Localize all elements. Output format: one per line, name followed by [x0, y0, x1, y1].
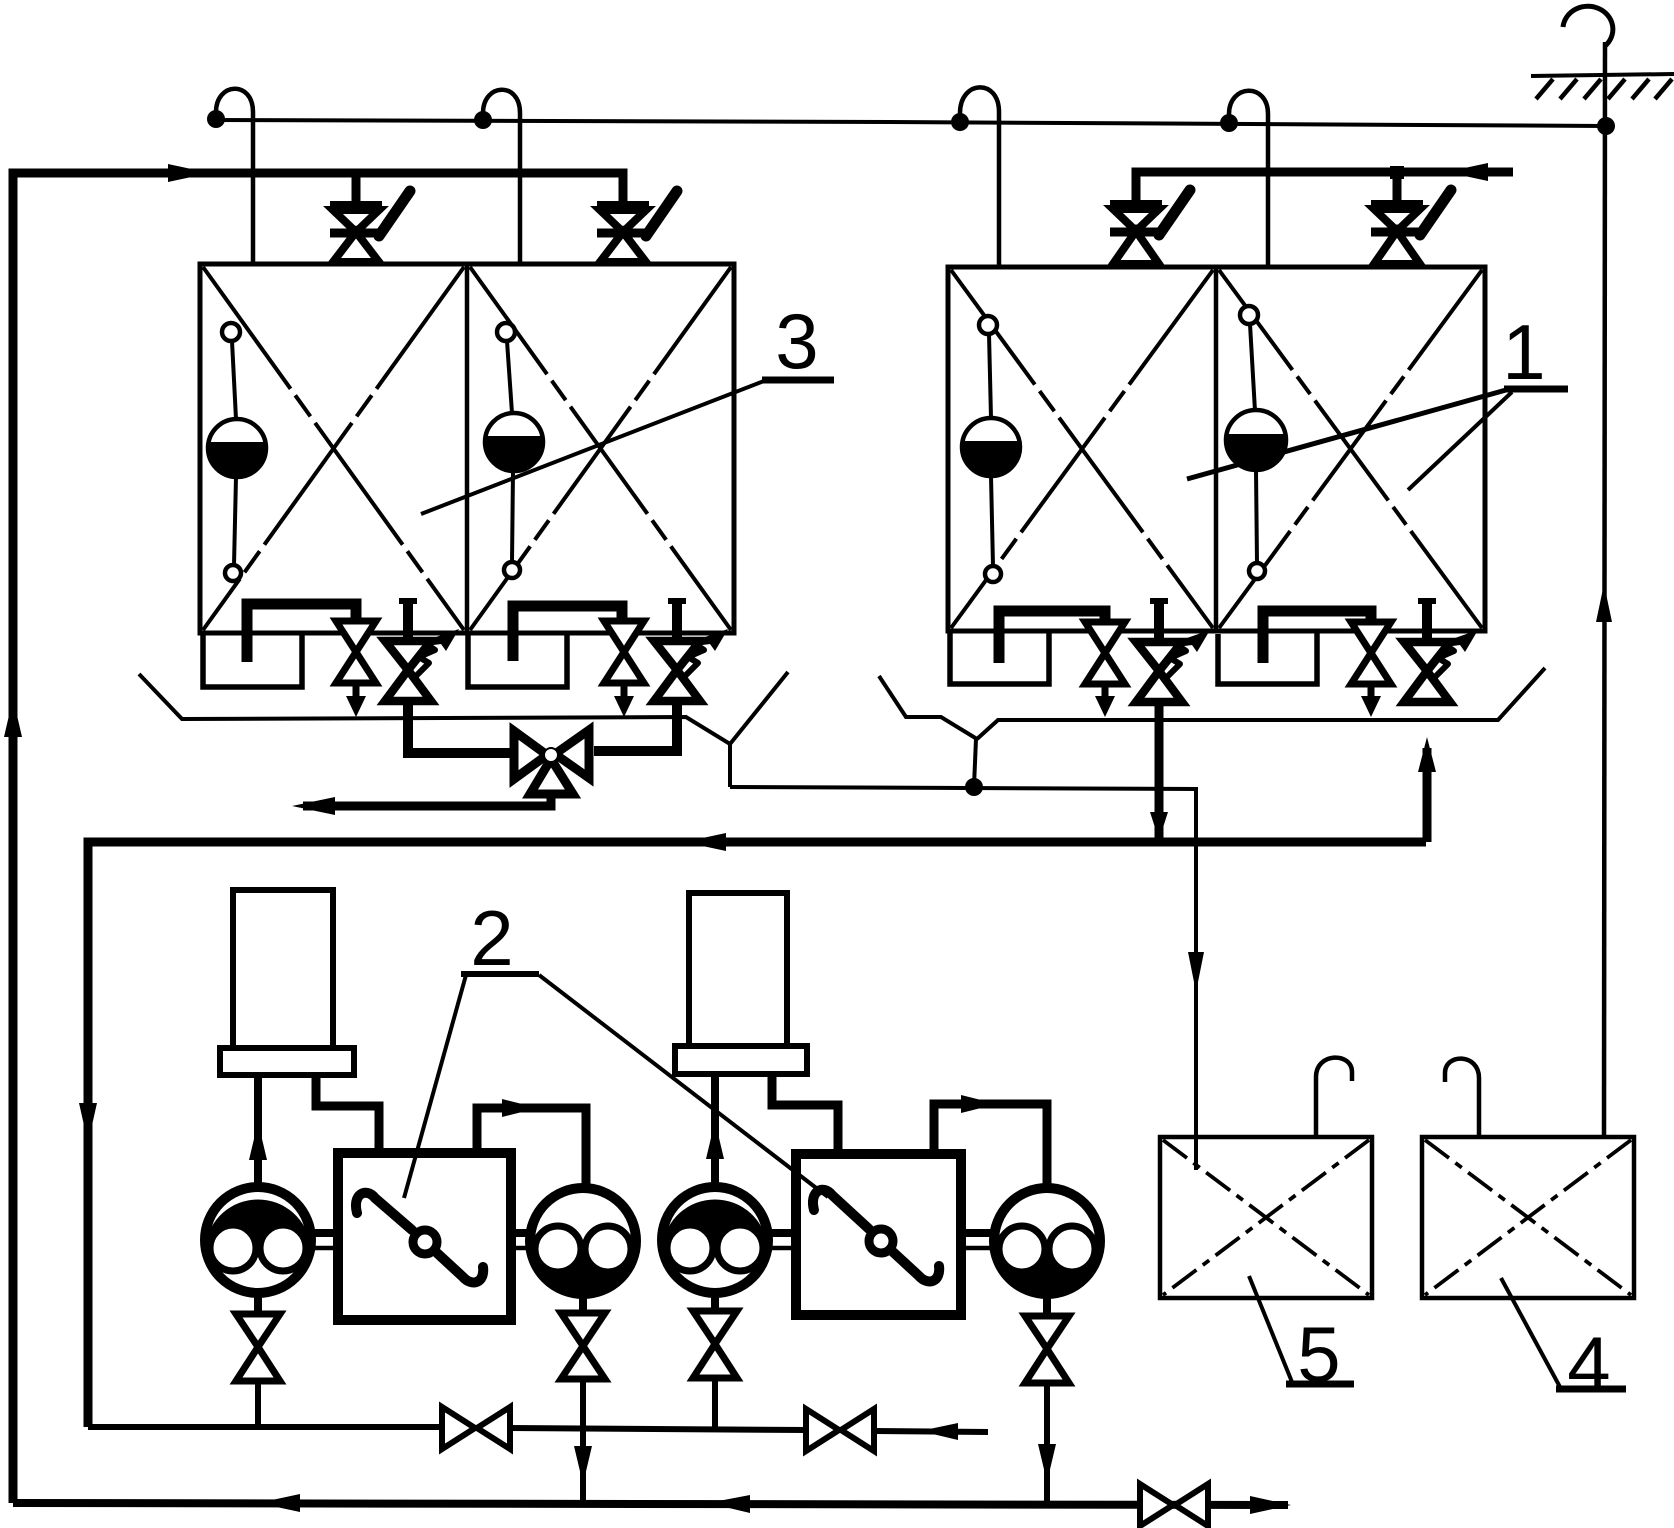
- pump N2 (gear pump): [530, 1188, 636, 1294]
- pump N1 drop pipe to suction manifold: [255, 1381, 261, 1428]
- suction pipe cylinder C2 to pump N3: [711, 1075, 719, 1186]
- step pipe C1 flange to regulator R1: [316, 1076, 379, 1154]
- sump box tank T2 cell1: [950, 631, 1049, 684]
- bottom main valve M3: [1140, 1484, 1208, 1526]
- arrow down on drain header drop to box 5: [1188, 952, 1204, 992]
- filter box 5 cross braces: [1163, 1140, 1369, 1295]
- arrow left on right supply pipe: [1446, 163, 1488, 181]
- cylinder C1 (motor of pump set 1): [233, 890, 333, 1048]
- drain valve D4 (tank T2 cell2 blow-off): [1351, 622, 1391, 717]
- drain valve D3 (tank T2 cell1 blow-off): [1085, 622, 1125, 717]
- junction dot C (vent loop 3): [951, 113, 969, 131]
- tank T2 divider: [1214, 267, 1219, 631]
- vent loop 4 (tank T2 cell 2): [1229, 91, 1268, 267]
- tank T2 cell1 cross braces: [951, 270, 1213, 628]
- arrow right on left supply pipe: [168, 164, 210, 182]
- svg-text:3: 3: [775, 297, 818, 385]
- drip tray under tank T2 left wall: [879, 676, 977, 739]
- filter box 5: [1160, 1137, 1372, 1298]
- pipe from valve B1 down to three-way valve: [408, 701, 514, 753]
- drain valve D1 (tank T1 cell1 blow-off): [336, 621, 376, 717]
- ground hatch ticks: [1536, 79, 1672, 99]
- tank T2 cell2 cross braces: [1219, 270, 1482, 628]
- arrow left on bottom main (center): [708, 1495, 750, 1513]
- label 1 leader line long: [1187, 390, 1506, 479]
- vent header line: [213, 120, 1606, 126]
- filter box 5 vent hook: [1316, 1058, 1352, 1137]
- valve V1 (tank T1 cell1 inlet valve with lever): [330, 191, 410, 262]
- regulator R1 box: [338, 1153, 511, 1320]
- arrow right at bottom main east end: [1250, 1496, 1291, 1514]
- valve V1 stem: [352, 173, 361, 208]
- shaft link regulator R1 to pump N2: [509, 1233, 531, 1248]
- label 4 leader: [1501, 1278, 1560, 1387]
- outlet valve B4 (tank T2 cell2 bottom valve with spring lever): [1404, 600, 1478, 702]
- shaft link regulator R2 to pump N4: [959, 1233, 995, 1248]
- vent loop 1 (tank T1 cell 1): [216, 89, 253, 264]
- supply pipe right (thick top main): [1136, 172, 1513, 207]
- sump box tank T1 cell1: [203, 633, 302, 687]
- filter box 4: [1422, 1137, 1634, 1298]
- suction manifold middle span: [510, 1428, 806, 1430]
- pump N2 outlet stem: [579, 1295, 587, 1313]
- float gauge G1 (tank T1 cell1): [208, 323, 266, 581]
- pump valve K4: [1025, 1316, 1069, 1383]
- shaft link pump N3 to regulator R2: [767, 1233, 798, 1248]
- arrow down on pump N4 drop: [1038, 1444, 1056, 1482]
- svg-text:2: 2: [470, 894, 513, 982]
- junction dot A (vent loop 1): [207, 110, 225, 128]
- suction pipe P4 (tank T2 cell2 internal U pipe): [1263, 611, 1371, 663]
- pipe regulator R2 to pump N4: [934, 1104, 1047, 1190]
- regulator R2 lever: [813, 1190, 939, 1282]
- pump N1 (gear pump): [205, 1187, 311, 1293]
- pump valve K1: [236, 1314, 280, 1381]
- outlet valve B2 (tank T1 cell2 bottom valve with spring lever): [654, 600, 728, 701]
- tank T1 cell1 cross braces: [203, 267, 464, 630]
- drip tray T2 drain leg: [974, 739, 976, 786]
- junction dot E (header to ground riser): [1597, 117, 1615, 135]
- arrow left on bottom main (west): [258, 1494, 300, 1512]
- ground surface line: [1531, 74, 1674, 76]
- arrow left on suction manifold stub: [920, 1423, 958, 1440]
- manifold valve M2: [806, 1409, 874, 1451]
- drip tray under tank T2: [977, 668, 1545, 739]
- arrow up on B4 riser: [1418, 737, 1436, 772]
- valve V2 (tank T1 cell2 inlet valve with lever): [597, 191, 677, 262]
- arrow up on ground riser: [1596, 584, 1612, 622]
- label 3 underline: [762, 377, 834, 384]
- pipe from valve B2 down to three-way valve: [594, 701, 677, 751]
- tank T1 divider: [465, 264, 470, 633]
- flange of cylinder C1: [220, 1048, 354, 1075]
- arrow up on C1 suction pipe: [249, 1122, 267, 1160]
- suction manifold (lower): [88, 1424, 442, 1430]
- pump N3 drop pipe to suction manifold: [712, 1378, 718, 1428]
- vent loop 2 (tank T1 cell 2): [483, 90, 520, 264]
- sump box tank T2 cell2: [1218, 631, 1317, 684]
- label 3 leader line: [421, 381, 764, 514]
- junction dot B (vent loop 2): [474, 111, 492, 129]
- vent loop 3 (tank T2 cell 1): [960, 87, 999, 267]
- flange of cylinder C2: [675, 1046, 807, 1074]
- float gauge G2 (tank T1 cell2): [485, 323, 543, 578]
- suction manifold right stub: [874, 1431, 988, 1432]
- pipe regulator R1 to pump N2: [477, 1108, 586, 1190]
- shaft link pump N1 to regulator R1: [310, 1233, 340, 1248]
- svg-text:4: 4: [1567, 1320, 1610, 1408]
- manifold valve M1: [442, 1407, 510, 1449]
- label 1 leader line short: [1408, 392, 1512, 490]
- three-way valve drain stem: [303, 793, 551, 806]
- regulator R2 box: [796, 1154, 961, 1315]
- label 2 leader to regulator R1: [404, 975, 466, 1198]
- filter box 4 vent hook: [1445, 1059, 1479, 1137]
- pump N2 drop pipe to bottom main: [580, 1379, 586, 1503]
- arrow right on R2 outlet pipe: [961, 1095, 997, 1113]
- pump N1 outlet stem: [254, 1294, 262, 1314]
- sump box tank T1 cell2: [468, 633, 567, 687]
- filter box 4 cross braces: [1425, 1140, 1631, 1295]
- arrow up on left main vertical: [4, 698, 22, 737]
- float gauge G4 (tank T2 cell2): [1226, 306, 1286, 579]
- arrow left on return manifold: [684, 833, 726, 851]
- outlet valve B3 (tank T2 cell1 bottom valve with spring lever): [1136, 600, 1210, 702]
- tank T2 shell: [948, 267, 1485, 631]
- pump N4 drop pipe to bottom main: [1044, 1383, 1050, 1505]
- cylinder C2 (motor of pump set 2): [689, 893, 787, 1046]
- pump N4 (gear pump): [994, 1188, 1100, 1294]
- regulator R1 lever: [356, 1193, 483, 1283]
- label 5 leader: [1249, 1276, 1292, 1382]
- drain valve D2 (tank T1 cell2 blow-off): [604, 621, 644, 717]
- float gauge G3 (tank T2 cell1): [962, 316, 1020, 582]
- svg-text:1: 1: [1502, 308, 1545, 396]
- suction pipe P2 (tank T1 cell2 internal U pipe): [513, 606, 622, 661]
- suction pipe P3 (tank T2 cell1 internal U pipe): [999, 611, 1105, 663]
- return manifold (thick middle): [88, 842, 1426, 1427]
- valve V4 (tank T2 cell2 inlet valve with lever): [1371, 190, 1451, 264]
- ground hook (atmospheric vent curl): [1563, 6, 1613, 46]
- leakage drain header: [730, 787, 1196, 1170]
- label 2 leader to regulator R2: [539, 975, 828, 1197]
- arrow up on C2 suction pipe: [706, 1121, 724, 1159]
- drip tray under tank T1: [139, 672, 788, 744]
- arrow right on R1 outlet pipe: [502, 1099, 538, 1117]
- tank T1 cell2 cross braces: [470, 267, 731, 630]
- arrow down on return manifold drop leg: [79, 1103, 97, 1143]
- three-way valve W1: [514, 730, 589, 794]
- pump valve K2: [561, 1313, 605, 1379]
- pump valve K3: [693, 1311, 737, 1378]
- label 5 underline: [1286, 1381, 1354, 1388]
- junction dot D (vent loop 4): [1220, 114, 1238, 132]
- arrow down at B3 drop junction: [1150, 812, 1168, 840]
- pump N3 (gear pump): [662, 1187, 768, 1293]
- label 4 underline: [1556, 1386, 1626, 1393]
- feed riser from return manifold to valve B4: [1423, 748, 1432, 842]
- suction pipe P1 (tank T1 cell1 internal U pipe): [247, 604, 356, 662]
- pump N3 outlet stem: [711, 1294, 719, 1311]
- junction dot on drain header: [965, 778, 983, 796]
- outlet valve B1 (tank T1 cell1 bottom valve with spring lever): [385, 600, 459, 701]
- ground riser wire (right main vertical): [1604, 42, 1605, 1137]
- label 2 underline: [461, 971, 539, 977]
- pump N4 outlet stem: [1043, 1295, 1051, 1316]
- junction blob on right supply at V4 stem: [1390, 166, 1404, 179]
- valve V3 (tank T2 cell1 inlet valve with lever): [1110, 190, 1190, 264]
- drip tray T1 drain leg: [728, 744, 732, 787]
- tank T1 shell: [200, 264, 734, 633]
- valve V4 stem: [1393, 172, 1402, 207]
- step pipe C2 flange to regulator R2: [772, 1075, 838, 1155]
- arrow down on pump N2 drop: [574, 1446, 592, 1484]
- feed drop from valve B3 to return manifold: [1155, 701, 1164, 838]
- supply pipe left (thick top main): [13, 173, 623, 1503]
- label 1 underline: [1504, 386, 1568, 393]
- suction pipe cylinder C1 to pump N1: [254, 1076, 262, 1188]
- arrow left on three-way drain: [292, 797, 335, 815]
- bottom main pipe: [13, 1503, 1288, 1505]
